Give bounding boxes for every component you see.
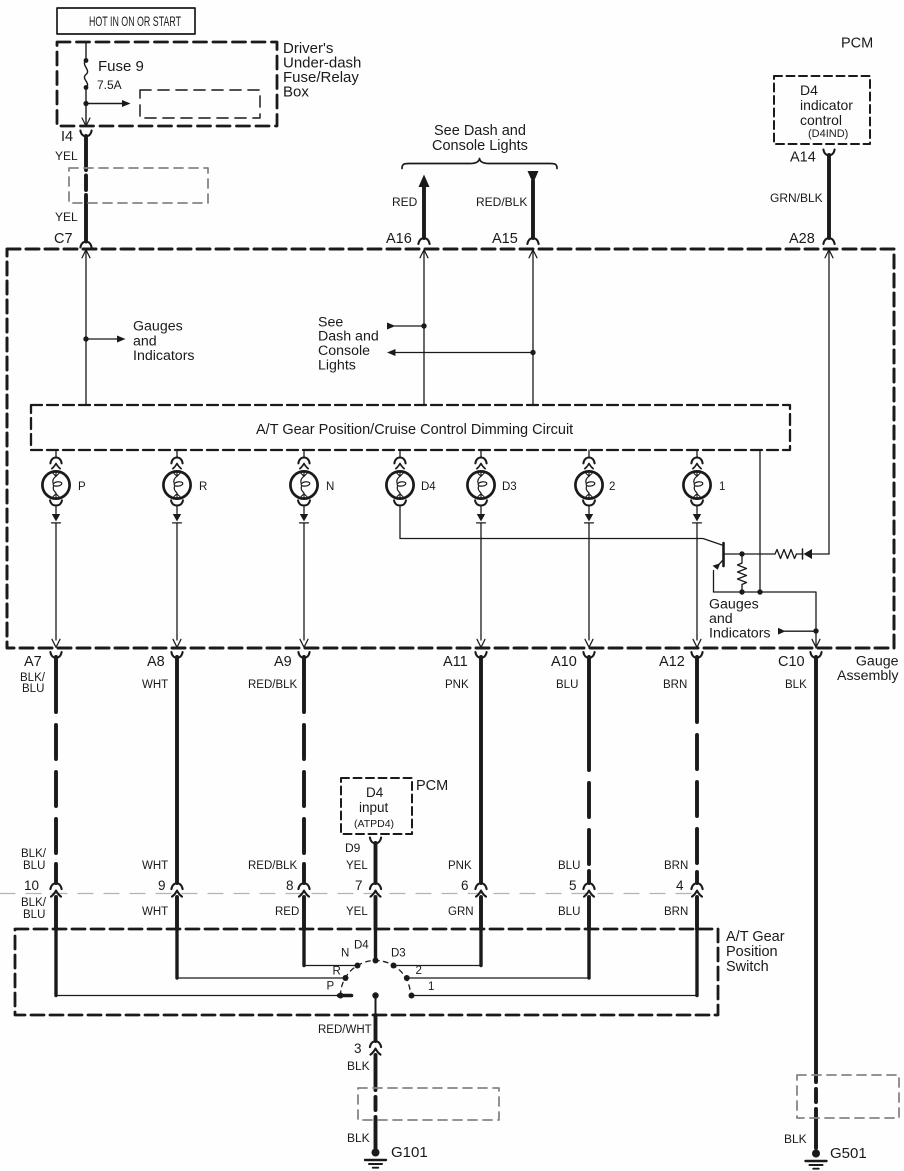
svg-text:Console Lights: Console Lights	[432, 138, 528, 154]
svg-text:2: 2	[609, 481, 615, 493]
label See Dash and Console Lights	[432, 123, 528, 154]
svg-text:BLU: BLU	[558, 906, 580, 918]
junction node at fuse output	[83, 101, 88, 106]
pin arrow inside at C7	[82, 250, 90, 258]
wire A15 to dimming circuit	[532, 252, 534, 406]
svg-text:P: P	[327, 981, 335, 993]
wire GRN/BLK A14 to A28	[827, 155, 831, 238]
svg-text:P: P	[78, 481, 86, 493]
wire from box top to fuse	[85, 42, 87, 59]
terminal A15	[492, 231, 539, 247]
wire below connector 7	[374, 897, 378, 929]
wire lamp D4 to transistor base	[394, 500, 722, 545]
svg-text:9: 9	[158, 878, 166, 893]
connector cavity 8	[286, 878, 310, 897]
svg-text:7: 7	[355, 878, 363, 893]
terminal A10	[551, 652, 595, 670]
svg-text:RED/BLK: RED/BLK	[248, 679, 298, 691]
wire A16 to dimming circuit	[423, 252, 425, 406]
terminal C7	[54, 231, 92, 248]
lamp socket 2	[583, 450, 594, 469]
switch contact D4	[373, 958, 379, 964]
svg-text:BLU: BLU	[556, 679, 578, 691]
svg-text:D4: D4	[800, 82, 818, 98]
branch arrow from A15 wire	[387, 349, 533, 356]
ground G101	[365, 1144, 428, 1168]
resistor (vertical, base-emitter)	[738, 554, 747, 592]
svg-text:Indicators: Indicators	[709, 626, 771, 642]
terminal A28	[789, 231, 835, 247]
diode (cathode left)	[803, 549, 813, 559]
indicator bulb D4	[386, 471, 436, 498]
svg-text:BLU: BLU	[23, 860, 45, 872]
lamp socket N	[298, 450, 309, 469]
svg-text:PCM: PCM	[841, 36, 873, 52]
wire YEL D9 to connector 7	[374, 843, 378, 883]
gauge assembly box (dashed)	[7, 249, 894, 648]
svg-text:BLK/: BLK/	[21, 848, 47, 860]
svg-text:Fuse 9: Fuse 9	[98, 58, 144, 75]
wire diode to A28 wire	[812, 553, 829, 555]
svg-text:8: 8	[286, 878, 294, 893]
svg-text:R: R	[199, 481, 207, 493]
svg-text:D3: D3	[391, 948, 406, 960]
wire to contact N	[304, 929, 358, 966]
wire below connector 8	[302, 897, 306, 929]
connector cavity 9	[158, 878, 183, 897]
wire below connector 4	[695, 897, 699, 929]
svg-text:A15: A15	[492, 231, 518, 247]
wire RED/BLK A9 to connector 8	[302, 657, 306, 883]
wire pivot to box edge	[375, 996, 377, 1016]
wire WHT A8 to connector 9	[175, 657, 179, 883]
terminal A9	[274, 652, 310, 670]
terminal I4	[61, 129, 92, 145]
switch contact R	[343, 975, 349, 981]
switch contact D3	[391, 963, 397, 969]
connector cavity 10	[24, 878, 62, 897]
wire below lamp N	[298, 500, 310, 647]
wire BLK to G101	[374, 1055, 378, 1149]
svg-text:Lights: Lights	[318, 358, 356, 374]
pin arrow at fuse box exit	[82, 118, 90, 126]
svg-text:D3: D3	[502, 481, 517, 493]
svg-text:A9: A9	[274, 654, 292, 670]
in-line connector (gray dashed) at G501	[797, 1075, 899, 1118]
svg-text:(D4IND): (D4IND)	[808, 128, 848, 140]
node on A16 wire	[421, 323, 426, 328]
wire below lamp 1	[691, 500, 703, 647]
transistor emitter arrow	[713, 563, 721, 570]
terminal A16	[386, 231, 430, 247]
wire to contact P	[56, 929, 339, 996]
svg-text:BLK/: BLK/	[21, 897, 47, 909]
svg-text:YEL: YEL	[346, 860, 368, 872]
terminal C10	[778, 652, 822, 670]
svg-text:See Dash and: See Dash and	[434, 123, 526, 139]
branch arrow gauges to C10 wire	[778, 628, 816, 635]
svg-text:A8: A8	[147, 654, 165, 670]
connector cavity 4	[676, 878, 703, 897]
svg-text:A12: A12	[659, 654, 685, 670]
lamp socket R	[171, 450, 182, 469]
terminal A8	[147, 652, 183, 670]
wire RED/WHT to connector 3	[374, 1015, 378, 1041]
switch contact P	[338, 993, 344, 999]
pin arrow at C10	[812, 639, 820, 647]
svg-text:A28: A28	[789, 231, 815, 247]
svg-text:Assembly: Assembly	[837, 668, 899, 684]
svg-text:BLK: BLK	[785, 679, 807, 691]
indicator bulb N	[290, 471, 334, 498]
connector cavity 5	[569, 878, 595, 897]
PCM D4 input box (dashed)	[341, 778, 412, 834]
svg-text:GRN: GRN	[448, 906, 474, 918]
terminal A11	[443, 652, 487, 670]
node C10 branch	[813, 628, 818, 633]
indicator bulb R	[163, 471, 207, 498]
wire below connector 5	[587, 897, 591, 929]
branch arrow to A16 wire	[387, 323, 424, 330]
svg-text:A16: A16	[386, 231, 412, 247]
svg-text:control: control	[800, 112, 842, 128]
svg-text:4: 4	[676, 878, 684, 893]
svg-text:10: 10	[24, 878, 39, 893]
in-line connector row separator	[0, 893, 697, 895]
connector cavity 7	[355, 878, 381, 897]
wire PNK A11 to connector 6	[479, 657, 483, 883]
wire below lamp 2	[583, 500, 595, 647]
svg-text:A/T Gear Position/Cruise Contr: A/T Gear Position/Cruise Control Dimming…	[256, 422, 573, 438]
svg-text:7.5A: 7.5A	[97, 78, 122, 92]
svg-text:BLK: BLK	[347, 1131, 370, 1145]
svg-text:5: 5	[569, 878, 577, 893]
transistor Q (dimming driver)	[714, 543, 743, 592]
svg-text:PNK: PNK	[445, 679, 469, 691]
wire below connector 10	[54, 897, 58, 929]
wire BLU A10 to connector 5	[587, 657, 591, 883]
svg-text:R: R	[333, 966, 341, 978]
svg-text:WHT: WHT	[142, 860, 168, 872]
terminal A12	[659, 652, 703, 670]
PCM D4 indicator control box (dashed)	[774, 76, 870, 144]
wire color labels below connector row	[21, 897, 688, 921]
wire below connector 9	[175, 897, 179, 929]
terminal A7	[24, 652, 62, 670]
wire BLK C10 to G501	[814, 657, 818, 1148]
switch contact 2	[404, 975, 410, 981]
svg-text:GRN/BLK: GRN/BLK	[770, 191, 823, 205]
svg-text:1: 1	[719, 481, 725, 493]
wire to contact 1	[412, 929, 698, 996]
svg-text:indicator: indicator	[800, 97, 853, 113]
svg-text:BLU: BLU	[23, 909, 45, 921]
node resistor/rail	[739, 589, 744, 594]
label A/T Gear Position Switch	[726, 929, 785, 975]
svg-text:Box: Box	[283, 84, 309, 101]
lamp socket 1	[691, 450, 702, 469]
wire below lamp R	[171, 500, 183, 647]
svg-text:I4: I4	[61, 129, 73, 145]
wire BLK/BLU A7 to connector 10	[54, 657, 58, 883]
svg-text:C10: C10	[778, 654, 805, 670]
wire to contact D3	[394, 929, 482, 966]
wire RED (to dash lights, arrow up)	[419, 175, 430, 239]
svg-text:BLU: BLU	[558, 860, 580, 872]
svg-text:BLK: BLK	[784, 1132, 807, 1146]
terminal A14	[790, 150, 835, 166]
fuse F9 symbol	[84, 58, 89, 90]
svg-text:YEL: YEL	[55, 149, 78, 163]
switch position labels	[327, 940, 435, 994]
label Gauges and Indicators (left)	[133, 319, 195, 365]
svg-text:A/T Gear: A/T Gear	[726, 929, 785, 945]
svg-text:A7: A7	[24, 654, 42, 670]
wire to contact 2	[406, 929, 590, 978]
svg-text:D4: D4	[366, 785, 384, 800]
fuse/relay box (dashed)	[57, 42, 277, 126]
node collector	[739, 551, 744, 556]
svg-text:BLU: BLU	[22, 683, 44, 695]
indicator bulb D3	[467, 471, 516, 498]
svg-text:BLK: BLK	[347, 1059, 370, 1073]
lamp socket D3	[475, 450, 486, 469]
label See Dash and Console Lights (inner)	[318, 315, 379, 374]
branch arrow to gauges and indicators	[86, 336, 126, 343]
svg-text:BRN: BRN	[664, 860, 688, 872]
node on C7 wire	[83, 336, 88, 341]
ground G501	[806, 1145, 867, 1169]
svg-text:G101: G101	[391, 1144, 428, 1161]
dimming circuit box (dashed)	[31, 405, 790, 450]
svg-text:D9: D9	[345, 841, 361, 855]
label Fuse 9 7.5A	[97, 58, 144, 92]
indicator bulb 2	[575, 471, 615, 498]
wire resistor to diode	[797, 553, 804, 555]
svg-text:N: N	[341, 948, 349, 960]
wire BRN A12 to connector 4	[695, 657, 699, 883]
svg-text:1: 1	[428, 981, 434, 993]
switch wiper (at P)	[339, 994, 352, 998]
svg-text:HOT IN ON OR START: HOT IN ON OR START	[89, 14, 181, 29]
wire C7 to dimming circuit	[85, 252, 87, 406]
svg-text:Gauges: Gauges	[133, 319, 183, 335]
svg-text:RED: RED	[275, 906, 299, 918]
svg-text:G501: G501	[830, 1145, 867, 1162]
svg-text:A14: A14	[790, 150, 816, 166]
wire A28 to diode	[828, 252, 830, 555]
label Driver's Under-dash Fuse/Relay Box	[283, 40, 361, 101]
indicator bulb P	[42, 471, 86, 498]
in-line connector (gray dashed) at G101	[358, 1088, 499, 1120]
svg-text:3: 3	[354, 1041, 362, 1056]
wire below connector 6	[479, 897, 483, 929]
svg-text:RED/BLK: RED/BLK	[476, 195, 527, 209]
label Gauge Assembly	[837, 654, 899, 685]
svg-text:RED: RED	[392, 195, 418, 209]
svg-text:YEL: YEL	[346, 906, 368, 918]
wire color labels above connector row	[21, 848, 688, 872]
svg-text:(ATPD4): (ATPD4)	[354, 818, 394, 830]
node dimming feed/rail	[757, 589, 762, 594]
wire below lamp P	[50, 500, 62, 647]
connector cavity 3	[354, 1041, 381, 1056]
switch pivot	[372, 992, 378, 998]
switch contact 1	[409, 993, 415, 999]
svg-text:2: 2	[416, 965, 422, 977]
svg-text:C7: C7	[54, 231, 73, 247]
branch arrow to relay block	[86, 100, 131, 107]
rotary switch arc	[341, 961, 411, 996]
svg-text:D4: D4	[354, 940, 369, 952]
resistor (horizontal)	[775, 550, 797, 559]
svg-text:YEL: YEL	[55, 210, 78, 224]
pin arrow inside at A15	[529, 250, 537, 258]
wire color labels below gauge box	[20, 672, 807, 695]
svg-text:Position: Position	[726, 944, 778, 960]
A/T gear position switch box (dashed)	[15, 929, 718, 1015]
svg-text:BRN: BRN	[664, 906, 688, 918]
svg-text:N: N	[326, 481, 334, 493]
svg-text:6: 6	[461, 878, 469, 893]
svg-text:WHT: WHT	[142, 906, 168, 918]
lamp socket D4	[394, 450, 405, 469]
svg-text:RED/WHT: RED/WHT	[318, 1024, 372, 1036]
pin arrow inside at A28	[825, 250, 833, 258]
svg-text:A11: A11	[443, 654, 468, 670]
svg-text:D4: D4	[421, 481, 436, 493]
pin arrow inside at A16	[420, 250, 428, 258]
power tag HOT IN ON OR START	[57, 8, 195, 34]
svg-text:A10: A10	[551, 654, 577, 670]
svg-text:Indicators: Indicators	[133, 348, 195, 364]
wire fuse to box bottom	[85, 88, 87, 125]
wire YEL I4 to C7	[84, 136, 88, 242]
svg-text:RED/BLK: RED/BLK	[248, 860, 298, 872]
svg-text:PCM: PCM	[416, 778, 448, 794]
relay block (dashed) inside fuse box	[140, 90, 260, 118]
label Gauges and Indicators (right)	[709, 597, 771, 642]
svg-text:PNK: PNK	[448, 860, 472, 872]
switch contact N	[355, 963, 361, 969]
node on A15 wire	[530, 350, 535, 355]
lamp socket P	[50, 450, 61, 469]
connector cavity 6	[461, 878, 487, 897]
in-line connector (gray dashed)	[69, 168, 208, 203]
indicator bulb 1	[683, 471, 725, 498]
brace	[402, 159, 557, 169]
wire from dimming circuit to emitter rail	[759, 450, 761, 592]
svg-text:WHT: WHT	[142, 679, 168, 691]
wire collector to resistor	[742, 553, 775, 555]
wire to contact D4	[374, 929, 377, 961]
wire below lamp D3	[475, 500, 487, 647]
wire RED/BLK (from dash lights, arrow down)	[528, 171, 539, 238]
emitter rail	[714, 592, 817, 648]
svg-text:Switch: Switch	[726, 959, 769, 975]
wire to contact R	[177, 929, 346, 978]
svg-text:BRN: BRN	[663, 679, 687, 691]
terminal D9	[345, 838, 381, 856]
svg-text:input: input	[359, 800, 389, 815]
